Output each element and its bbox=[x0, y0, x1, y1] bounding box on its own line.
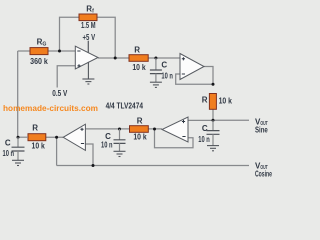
wire: sine node to Vout Sine terminal bbox=[213, 119, 249, 121]
resistor R 10k (bottom left) bbox=[28, 123, 46, 150]
wire: U1D feedback loop inverting input to output node bbox=[155, 129, 194, 148]
op-amp U1C (bottom left, mirrored) bbox=[63, 124, 85, 150]
svg-text:10 n: 10 n bbox=[101, 141, 113, 150]
svg-text:360 k: 360 k bbox=[30, 57, 48, 66]
node G: bottom C tap bbox=[118, 128, 121, 131]
resistor Rf 1.5M bbox=[79, 4, 97, 30]
op-amp U1B bbox=[180, 54, 204, 80]
wire: U1A non-inverting input to 0.5V reference bbox=[57, 66, 75, 88]
svg-text:10 k: 10 k bbox=[32, 141, 46, 150]
node C1 junction: R output / C / U1B input bbox=[154, 57, 157, 60]
op-amp U1A bbox=[75, 46, 98, 69]
wire: U1A output run to R and U1B non-inverting input bbox=[98, 57, 180, 59]
wire: U1B output down through vertical R to sine node bbox=[212, 94, 214, 121]
svg-text:+5 V: +5 V bbox=[83, 33, 96, 42]
svg-text:C: C bbox=[161, 61, 167, 70]
capacitor C 10n (top middle) bbox=[150, 58, 173, 82]
label Vout Cosine bbox=[255, 161, 272, 178]
svg-text:10 k: 10 k bbox=[219, 96, 233, 105]
wire: cosine rail to Vout Cosine terminal bbox=[57, 165, 249, 167]
ground below top-middle C bbox=[150, 82, 162, 87]
svg-text:1.5 M: 1.5 M bbox=[81, 21, 96, 30]
svg-text:R: R bbox=[134, 46, 140, 55]
resistor RG 360k bbox=[30, 37, 48, 65]
ground below bottom-left C bbox=[12, 160, 24, 165]
wire: +5V stem to U1A bbox=[87, 41, 89, 53]
svg-text:R: R bbox=[32, 123, 38, 132]
wire: bottom-left node to R bbox=[18, 136, 28, 138]
svg-text:C: C bbox=[5, 139, 11, 148]
svg-text:10 n: 10 n bbox=[198, 135, 210, 144]
wire: RG input segment bbox=[18, 50, 30, 52]
resistor R 10k (top middle) bbox=[129, 46, 148, 73]
node A: junction RG / Rf / U1A inverting input bbox=[58, 50, 61, 53]
svg-text:Cosine: Cosine bbox=[255, 170, 272, 179]
node E: sine output node bbox=[212, 119, 215, 122]
capacitor C 10n (sine node) bbox=[198, 120, 219, 145]
svg-text:0.5 V: 0.5 V bbox=[52, 89, 68, 98]
svg-text:10 k: 10 k bbox=[132, 63, 146, 72]
svg-text:10 k: 10 k bbox=[133, 133, 147, 142]
wire: left rail from RG input down to bottom-left node bbox=[17, 51, 19, 137]
wire: U1C inverting input to cosine rail bbox=[85, 144, 93, 166]
node I: bottom-left junction (rail / C / R) bbox=[17, 136, 20, 139]
svg-text:4/4 TLV2474: 4/4 TLV2474 bbox=[106, 102, 144, 111]
wire: sine node left to U1D non-inverting input bbox=[188, 119, 213, 121]
resistor R 10k (vertical, sine) bbox=[202, 94, 233, 110]
svg-text:C: C bbox=[202, 124, 208, 133]
svg-text:10 n: 10 n bbox=[161, 71, 173, 80]
node F: U1D output node bbox=[153, 128, 156, 131]
wire: RG output to op-amp U1A inverting input bbox=[48, 50, 75, 52]
capacitor C 10n (bottom middle) bbox=[101, 129, 126, 151]
wire: U1B feedback loop output to inverting input bbox=[176, 67, 213, 85]
op-amp U1D (bottom right, mirrored) bbox=[162, 117, 188, 142]
svg-text:Sine: Sine bbox=[255, 126, 268, 135]
wire: U1C output down to cosine rail bbox=[56, 137, 58, 165]
ground below sine C bbox=[207, 146, 219, 151]
wire: Rf right side down to U1A output node bbox=[97, 17, 115, 58]
node H: U1C output node bbox=[55, 136, 58, 139]
ground below U1A bbox=[82, 62, 94, 84]
node B: U1A output / Rf / R junction bbox=[114, 57, 117, 60]
ground below bottom-middle C bbox=[114, 151, 126, 156]
resistor R 10k (bottom middle) bbox=[130, 117, 149, 142]
svg-text:R: R bbox=[202, 96, 208, 105]
wire: feedback riser from node A up to Rf bbox=[60, 17, 80, 51]
wire: U1C output segment to bottom-left R bbox=[46, 136, 63, 138]
svg-text:homemade-circuits.com: homemade-circuits.com bbox=[3, 103, 98, 113]
capacitor C 10n (bottom left) bbox=[3, 137, 25, 160]
svg-text:10 n: 10 n bbox=[3, 149, 15, 158]
svg-text:R: R bbox=[137, 117, 143, 126]
label Vout Sine bbox=[255, 117, 268, 134]
node D: U1B output/feedback junction bbox=[212, 83, 215, 86]
wire: bottom row run U1C non-inverting input to U1D output bbox=[85, 128, 162, 130]
node J: cosine rail junction with U1C inverting feedback bbox=[92, 164, 95, 167]
